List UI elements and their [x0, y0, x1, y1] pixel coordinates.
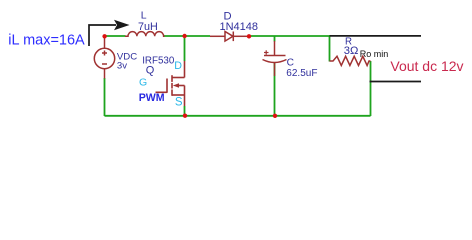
svg-text:1N4148: 1N4148	[220, 21, 259, 33]
junction dot: diode cathode	[247, 34, 251, 38]
junction dot: source bottom	[183, 114, 187, 118]
capacitor plus sign	[264, 50, 269, 54]
svg-text:3v: 3v	[117, 60, 127, 71]
output terminal top line	[330, 35, 422, 37]
iL current direction arrow	[89, 25, 116, 46]
wire: VDC bottom vertical	[104, 78, 106, 116]
svg-text:S: S	[175, 96, 183, 108]
transistor Q IRF530	[156, 61, 185, 106]
wire bottom rail	[105, 115, 371, 117]
junction dot: VDC top	[102, 34, 106, 38]
svg-text:IRF530: IRF530	[142, 56, 175, 67]
svg-text:C: C	[287, 57, 294, 68]
wire top rail: inductor to diode	[164, 35, 210, 37]
wire top rail: source to inductor	[105, 35, 126, 37]
wire: drain tap vertical	[184, 36, 186, 61]
svg-text:3Ω: 3Ω	[344, 45, 359, 57]
svg-text:PWM: PWM	[139, 92, 165, 104]
output terminal bottom line	[370, 81, 422, 83]
svg-text:L: L	[141, 10, 147, 22]
wire: source to bottom rail	[184, 106, 186, 116]
svg-text:G: G	[139, 77, 147, 89]
wire top rail: diode junction to load block	[249, 35, 330, 37]
wire: load block left vertical	[329, 36, 331, 62]
svg-text:D: D	[174, 60, 182, 72]
svg-text:Ro min: Ro min	[360, 49, 389, 59]
wire: capacitor top tap	[274, 36, 276, 42]
wire: capacitor bottom	[274, 63, 276, 116]
svg-text:Vout dc 12v: Vout dc 12v	[390, 58, 463, 74]
wire: load block right vertical	[370, 61, 372, 116]
junction dot: drain tap	[182, 34, 186, 38]
junction dot: capacitor bottom	[273, 114, 277, 118]
capacitor C	[263, 41, 287, 76]
inductor L	[125, 32, 165, 37]
svg-text:iL max=16A: iL max=16A	[8, 32, 85, 48]
svg-text:62.5uF: 62.5uF	[286, 68, 317, 79]
svg-text:7uH: 7uH	[138, 21, 158, 33]
resistor R	[330, 56, 371, 65]
voltage source VDC	[94, 37, 114, 79]
diode D 1N4148	[210, 32, 249, 42]
